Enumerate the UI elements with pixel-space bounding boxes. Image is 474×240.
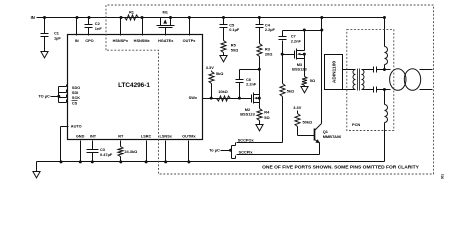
pin LSNSx (160, 135, 173, 139)
transistor M3 (283, 31, 308, 72)
capacitor C1 (41, 16, 62, 52)
svg-text:LTC4296-1: LTC4296-1 (118, 82, 150, 89)
capacitor C4 (256, 16, 276, 44)
resistor R 10k on SWx (217, 89, 231, 101)
capacitor C3 (87, 141, 113, 164)
resistor R3 (257, 44, 272, 70)
wire HSNSMx stub (141, 16, 144, 36)
wire GND pin stub (79, 141, 82, 164)
pin SDO (72, 86, 80, 90)
label LTC4296-1 (118, 82, 150, 89)
pin HSNSPx (113, 39, 129, 43)
wire transformer to cap bottom (362, 89, 374, 91)
svg-text:SDI: SDI (72, 91, 78, 95)
svg-text:2.2µF: 2.2µF (265, 27, 276, 32)
pin SCK (72, 96, 80, 100)
wire OUTPx stub (188, 16, 191, 36)
svg-text:001: 001 (441, 174, 445, 180)
svg-text:0.47µF: 0.47µF (100, 152, 113, 157)
pin AUTO (71, 125, 82, 129)
wire SWx line (y=97.6) (203, 97, 252, 100)
transistor M1 (157, 10, 175, 36)
wire Q1 collector to rail (320, 16, 323, 124)
svg-text:LSRC: LSRC (141, 135, 152, 139)
net SCCPIx (237, 150, 320, 155)
resistor R1 (125, 10, 139, 21)
svg-text:2.2nF: 2.2nF (291, 38, 302, 43)
svg-text:HGATEx: HGATEx (158, 39, 174, 43)
resistor RT 24.3k (118, 141, 137, 164)
label ADIN1100 (332, 61, 338, 83)
resistor R 50k base pullup (295, 114, 312, 136)
svg-text:PCN: PCN (352, 122, 360, 127)
svg-text:To µC: To µC (209, 147, 220, 152)
svg-text:10kΩ: 10kΩ (218, 89, 228, 94)
svg-text:50Ω: 50Ω (231, 47, 238, 52)
wire main input rail IN to chokes (y=17) (37, 17, 385, 19)
wire C7 to Q1 collector line (y=29.5) (283, 29, 324, 32)
wire AUTO to ground (60, 127, 69, 164)
svg-text:SCCPIx: SCCPIx (239, 150, 254, 155)
pin INT (90, 135, 97, 139)
wire R3 node to C6 (y=68.7) (240, 68, 261, 71)
svg-text:BSS123: BSS123 (240, 112, 255, 117)
pin RT (118, 135, 124, 139)
svg-text:SCCPOx: SCCPOx (238, 137, 255, 142)
pin SWx (189, 96, 198, 100)
wire HSNSPx stub (120, 16, 123, 36)
svg-text:5Ω: 5Ω (264, 115, 269, 120)
svg-text:24.3kΩ: 24.3kΩ (124, 149, 137, 154)
svg-text:SCK: SCK (72, 96, 80, 100)
svg-text:5Ω: 5Ω (310, 78, 315, 83)
svg-text:IN: IN (31, 15, 35, 20)
transistor M2 (240, 70, 261, 117)
ground under M3 source resistor (301, 87, 308, 93)
node IN input (31, 15, 35, 20)
op-amp U2 ADIN1100 box (325, 55, 343, 90)
resistor R4 (257, 103, 270, 125)
label PCN (352, 122, 360, 127)
svg-text:3.3V: 3.3V (293, 105, 301, 110)
svg-text:SWx: SWx (189, 96, 198, 100)
svg-text:CPO: CPO (85, 39, 93, 43)
net SCCPOx (237, 137, 283, 142)
svg-text:HSNSMx: HSNSMx (134, 39, 151, 43)
svg-text:ONE OF FIVE PORTS SHOWN. SOME: ONE OF FIVE PORTS SHOWN. SOME PINS OMITT… (262, 164, 420, 170)
pin SDI (72, 91, 78, 95)
pin GND (76, 135, 85, 139)
pin IN (75, 39, 79, 43)
label figure id (441, 174, 445, 180)
svg-text:RT: RT (118, 135, 124, 139)
svg-text:1µF: 1µF (54, 35, 61, 40)
svg-text:INT: INT (90, 135, 97, 139)
port boundary dashed box (106, 5, 434, 174)
svg-text:R1: R1 (129, 10, 135, 15)
wire SPI bus bracket (59, 85, 67, 103)
svg-text:MMBTA06: MMBTA06 (323, 134, 342, 139)
supply 3.3V for Q1 base (293, 105, 301, 113)
capacitor C7 (279, 31, 302, 56)
svg-text:GND: GND (76, 135, 85, 139)
wire transformer to cap top (362, 69, 374, 71)
svg-text:R4: R4 (264, 109, 270, 114)
svg-text:5kΩ: 5kΩ (216, 71, 223, 76)
svg-text:SDO: SDO (72, 86, 80, 90)
svg-text:1nF: 1nF (95, 26, 103, 31)
pin HGATEx (158, 39, 174, 43)
svg-text:IN: IN (75, 39, 79, 43)
svg-text:TO µC: TO µC (38, 93, 50, 98)
wire OUTMx pin stub (187, 141, 190, 164)
resistor R 5ohm under M3 (302, 59, 315, 87)
supply 3.3V for SWx pullup (206, 65, 214, 72)
pin HSNSMx (134, 39, 151, 43)
pin CS (72, 101, 78, 106)
op-amp U1 LTC4296-1 box (68, 35, 203, 140)
svg-text:5kΩ: 5kΩ (287, 88, 294, 93)
svg-text:HSNSPx: HSNSPx (113, 39, 129, 43)
pin CPO (85, 39, 93, 43)
wire ADIN to transformer top (343, 69, 356, 71)
svg-text:LSNSx: LSNSx (160, 135, 173, 139)
node To uC bottom (209, 147, 232, 152)
wire ground rail (y=161.4) (37, 162, 385, 172)
resistor R 5k pullup (209, 71, 223, 98)
ground under R4 (256, 125, 263, 131)
wire IN pin stub (76, 16, 79, 36)
resistor R5 (221, 41, 238, 56)
ground under R5 (220, 56, 227, 62)
svg-text:20Ω: 20Ω (265, 52, 272, 57)
svg-text:AUTO: AUTO (71, 125, 82, 129)
resistor R 5k to SCCPOx (280, 55, 294, 143)
ground rail symbol (33, 172, 40, 178)
svg-text:3.3V: 3.3V (206, 65, 214, 70)
svg-text:M1: M1 (162, 10, 168, 15)
wire LSNSx pin stub (164, 141, 167, 164)
svg-text:50kΩ: 50kΩ (303, 119, 313, 124)
transistor Q1 (298, 124, 343, 155)
wire To uC branch bracket (232, 143, 236, 159)
pin OUTPx (183, 39, 197, 43)
capacitor C2 (85, 16, 103, 36)
transformer T1 (353, 69, 364, 91)
svg-text:CS: CS (72, 101, 78, 105)
note one of five ports (262, 164, 420, 170)
svg-text:0.1µF: 0.1µF (229, 27, 240, 32)
wire LSRC pin stub (145, 141, 148, 164)
svg-text:BSS123: BSS123 (292, 67, 307, 72)
wire ADIN to transformer bottom (343, 89, 356, 91)
svg-text:OUTMx: OUTMx (182, 135, 196, 139)
connector twisted pair cable (385, 69, 433, 91)
PCN dashed box (347, 30, 394, 131)
pin LSRC (141, 135, 152, 139)
pin OUTMx (182, 135, 196, 139)
svg-text:OUTPx: OUTPx (183, 39, 197, 43)
inductor choke bottom (383, 88, 388, 162)
svg-text:ADIN1100: ADIN1100 (332, 61, 338, 83)
ground under C1 (41, 52, 48, 58)
svg-text:2.2nF: 2.2nF (246, 82, 257, 87)
inductor choke top (383, 16, 388, 71)
capacitor coupling top (374, 67, 385, 73)
capacitor C6 (236, 70, 257, 100)
node TO uC left (38, 93, 60, 98)
capacitor C5 (220, 16, 240, 41)
capacitor coupling bottom (374, 87, 385, 93)
